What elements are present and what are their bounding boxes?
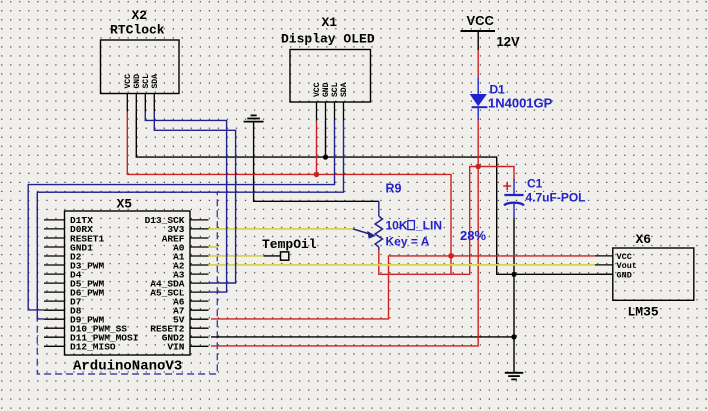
- svg-text:VCC: VCC: [467, 13, 495, 28]
- pin labels X2 (VCC GND SCL SDA): [124, 74, 160, 89]
- svg-text:10K: 10K: [386, 219, 408, 233]
- svg-text:LM35: LM35: [628, 305, 659, 320]
- wire: C1 bottom lead to gnd bus (black): [513, 218, 515, 274]
- ground (lower right): [505, 373, 523, 380]
- svg-text:1N4001GP: 1N4001GP: [488, 96, 553, 111]
- svg-text:D1: D1: [490, 83, 506, 97]
- wire: X1 VCC drop (red): [316, 121, 318, 175]
- potentiometer R9: [353, 201, 383, 250]
- svg-text:Display OLED: Display OLED: [281, 32, 375, 47]
- dashed subcircuit boundary around ArduinoNanoV3: [37, 192, 217, 374]
- wire: X1 SDA to Arduino D9_PWM (navy): [37, 121, 343, 319]
- wire: Arduino A2 to X6 Vout (yellow): [209, 264, 595, 266]
- wire: Arduino 5V to X6 VCC (red): [211, 256, 595, 319]
- svg-text:SDA: SDA: [151, 74, 160, 89]
- svg-text:_LIN: _LIN: [415, 219, 442, 233]
- wire: potentiometer bottom loop to C1 top (red): [379, 167, 514, 275]
- junction: 5V line / VCC bus drop: [448, 253, 454, 259]
- power VCC symbol: [461, 13, 496, 50]
- pin labels X6: [617, 252, 637, 280]
- pin labels X5 right column: [145, 215, 185, 352]
- svg-text:X1: X1: [322, 15, 338, 30]
- svg-text:GND: GND: [322, 82, 331, 97]
- svg-text:SCL: SCL: [331, 82, 340, 97]
- wire: X2 SCL to Arduino A5_SCL (navy): [145, 112, 226, 293]
- wire: Arduino GND2 to ground drop (black): [211, 336, 514, 338]
- wire: X1 SCL to Arduino D8 (navy): [28, 121, 334, 310]
- junction: gnd bus / C1 lead: [511, 272, 516, 277]
- wire: Arduino A1 to TempOil connector (yellow): [209, 255, 264, 257]
- X5 right pin stubs: [190, 220, 209, 346]
- wire: X1 GND drop (black): [325, 121, 327, 158]
- pin labels X1 (VCC GND SCL SDA): [313, 82, 349, 97]
- svg-text:12V: 12V: [497, 34, 520, 49]
- svg-text:D12_MISO: D12_MISO: [70, 342, 116, 353]
- pin labels X5 left column: [70, 215, 138, 352]
- wire: VCC 12V rail through D1 down to VIN row (red): [477, 50, 479, 78]
- wire: X2 VCC down and VCC bus (red): [127, 112, 451, 275]
- junction: GND2 / ground drop: [511, 334, 516, 339]
- svg-text:R9: R9: [386, 182, 402, 196]
- X5 left pin stubs: [44, 220, 65, 346]
- svg-text:ArduinoNanoV3: ArduinoNanoV3: [73, 359, 182, 375]
- svg-text:GND: GND: [617, 270, 632, 280]
- svg-text:28%: 28%: [460, 228, 486, 243]
- svg-text:SDA: SDA: [340, 82, 349, 97]
- diode D1: [470, 78, 488, 120]
- svg-text:X5: X5: [117, 197, 133, 212]
- ground (upper, inverted): [244, 115, 264, 121]
- wire: Arduino 3V3 to potentiometer wiper (yellow): [209, 228, 353, 230]
- wire: X2 SDA to Arduino A4_SDA (navy): [154, 112, 235, 284]
- connector X1 Display OLED box: [290, 50, 371, 121]
- svg-text:RTClock: RTClock: [110, 23, 165, 38]
- junction: VCC bus / X1 VCC: [314, 172, 320, 178]
- wire: D1 cathode down to VIN and into Arduino (red): [211, 119, 478, 346]
- wire: gnd bus down to lower ground (black): [513, 274, 515, 372]
- capacitor C1: [503, 179, 524, 218]
- svg-text:SCL: SCL: [142, 74, 151, 89]
- svg-text:GND: GND: [133, 74, 142, 89]
- svg-text:C1: C1: [527, 177, 543, 191]
- wire: Arduino A0 stub (yellow): [209, 246, 219, 248]
- junction: D1 branch to C1: [475, 164, 481, 170]
- svg-text:X6: X6: [636, 232, 652, 247]
- node TempOil connector lead and square: [264, 252, 289, 260]
- module X5 ArduinoNanoV3 box: [65, 211, 191, 355]
- wire: X2 GND to gnd bus to X6 GND (black): [136, 112, 613, 275]
- connector X2 RTClock box: [101, 40, 180, 112]
- junction: gnd bus / X1 GND: [323, 155, 328, 160]
- wire: upper ground stem to potentiometer top (black): [254, 121, 379, 201]
- svg-text:Key = A: Key = A: [386, 235, 430, 249]
- svg-text:X2: X2: [132, 8, 148, 23]
- svg-text:VCC: VCC: [124, 74, 133, 89]
- sensor X6 LM35 box: [595, 248, 694, 300]
- svg-text:VIN: VIN: [167, 342, 184, 353]
- svg-text:4.7uF-POL: 4.7uF-POL: [526, 191, 586, 205]
- svg-text:VCC: VCC: [313, 82, 322, 97]
- svg-text:TempOil: TempOil: [262, 237, 317, 252]
